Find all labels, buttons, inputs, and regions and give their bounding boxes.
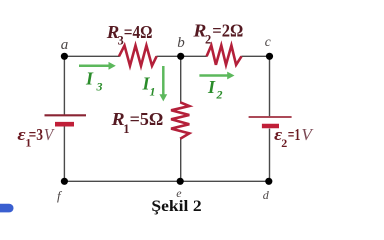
wire bottom f-e-d [64,180,269,182]
node label f [57,188,63,203]
node label a [61,37,69,53]
node label e [176,186,182,200]
wire left lower [63,127,65,182]
svg-text:a: a [61,37,69,53]
node d [265,178,272,185]
current label I1 [142,74,156,99]
node a [61,53,68,60]
svg-text:=5Ω: =5Ω [130,109,164,129]
svg-text:b: b [177,35,185,51]
current arrow I1 [159,66,167,101]
resistor R2 [207,45,242,64]
svg-text:2: 2 [281,136,287,150]
battery E1 short plate [55,122,74,127]
svg-text:1: 1 [150,85,156,99]
current arrow I3 [79,62,116,70]
wire top R2-c [241,55,269,57]
blue bullet bar bottom-left [0,204,14,213]
wire right lower [269,129,271,182]
node c [266,53,273,60]
wire middle lower [180,139,182,182]
value label E2=1V [274,125,314,150]
wire middle upper [180,56,182,102]
resistor R1 [171,102,189,139]
node label b [177,35,185,51]
svg-text:=2Ω: =2Ω [212,21,243,41]
current label I2 [207,77,223,102]
battery E1 long plate [45,114,87,116]
caption Sekil 2 [151,198,201,215]
wire top b-R2 [181,55,207,57]
svg-text:=1: =1 [288,125,301,144]
battery E2 short plate [262,124,279,129]
svg-text:Şekil 2: Şekil 2 [151,198,201,215]
value label R3=4ohm [106,22,153,48]
node f [61,178,68,185]
svg-text:I: I [85,69,94,89]
node label c [265,34,271,49]
svg-text:3: 3 [96,80,103,94]
resistor R3 [119,46,157,66]
svg-text:2: 2 [216,88,223,102]
value label R1=5ohm [111,109,164,136]
node b [177,53,184,60]
svg-text:d: d [263,188,270,202]
value label E1=3V [17,125,55,150]
svg-text:c: c [265,34,271,49]
wire right upper [269,56,271,116]
wire left upper [63,56,65,114]
wire top R3-b [156,55,180,57]
svg-text:ε: ε [17,125,25,144]
value label R2=2ohm [192,21,243,47]
node e [177,178,184,185]
node label d [263,188,270,202]
current arrow I2 [199,72,234,80]
svg-text:2: 2 [205,33,211,47]
wire top a-R3 [64,55,119,57]
svg-text:=4Ω: =4Ω [124,22,153,42]
svg-text:=3: =3 [29,125,43,144]
svg-text:I: I [207,77,216,97]
current label I3 [85,69,103,94]
battery E2 long plate [249,116,292,118]
svg-text:1: 1 [123,122,129,136]
